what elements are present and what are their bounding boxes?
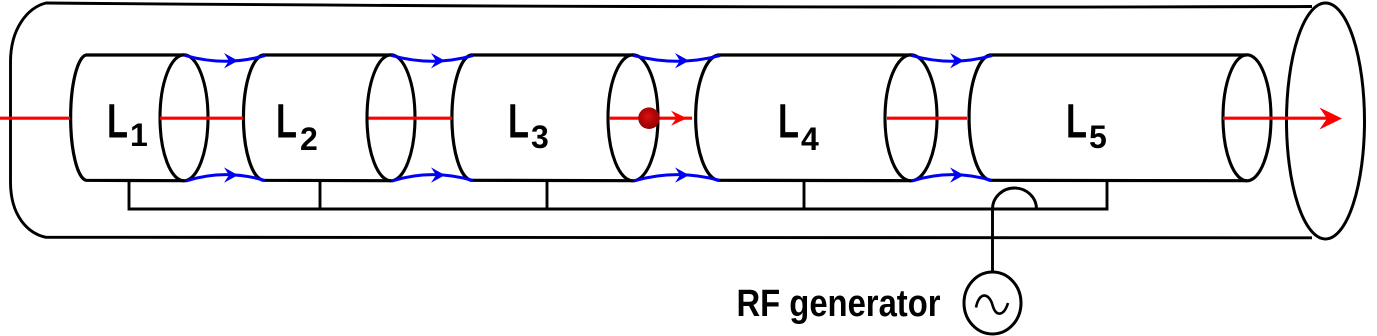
drift tube L2 body (243, 55, 391, 181)
E-field arrowhead top gap L1-L2 (224, 53, 238, 68)
svg-text:5: 5 (1089, 119, 1107, 155)
RF generator circle (964, 272, 1021, 334)
E-field arrowhead bottom gap L3-L4 (675, 167, 689, 182)
E-field arrow curve top gap L1-L2 (185, 55, 266, 61)
drift tube L2 right end ellipse (367, 55, 415, 181)
label L1 (107, 96, 148, 154)
svg-text:4: 4 (801, 121, 819, 157)
RF generator sine symbol (976, 296, 1008, 314)
beam axis red segment gap L4-L5 (887, 117, 967, 120)
E-field arrow curve bottom gap L1-L2 (186, 175, 265, 181)
svg-text:L: L (1066, 96, 1087, 149)
svg-text:L: L (107, 96, 128, 149)
outer vacuum tank body (11, 3, 1313, 238)
E-field arrow curve bottom gap L3-L4 (634, 175, 720, 181)
drift tube L3 right end ellipse (608, 55, 658, 181)
svg-text:L: L (508, 96, 529, 149)
beam axis red segment gap L1-L2 (160, 117, 243, 120)
bus stub wire to L4 (803, 180, 806, 209)
drift tube L5 right end ellipse (1223, 55, 1271, 181)
drift tube L5 body (969, 55, 1247, 181)
E-field arrowhead top gap L2-L3 (431, 53, 445, 68)
E-field arrowhead bottom gap L2-L3 (431, 167, 445, 182)
wire hop over bus (993, 188, 1037, 209)
red arrowhead on particle arrow (671, 111, 687, 126)
E-field arrow curve top gap L4-L5 (911, 55, 992, 61)
svg-text:3: 3 (531, 119, 549, 155)
E-field arrowhead bottom gap L4-L5 (950, 167, 964, 182)
label L5 (1066, 96, 1107, 156)
E-field arrow curve bottom gap L2-L3 (392, 175, 473, 181)
bus stub wire to L2 (319, 180, 322, 209)
drift tube L1 right end ellipse (160, 55, 208, 181)
label L2 (276, 96, 318, 158)
drift tube L1 body (71, 55, 184, 181)
RF generator lead wire (991, 209, 994, 273)
svg-text:L: L (276, 96, 297, 149)
red exit arrowhead (1320, 108, 1343, 130)
svg-text:1: 1 (130, 117, 148, 153)
E-field arrow curve top gap L2-L3 (391, 55, 473, 61)
beam axis red segment gap L3-L4 with particle (609, 117, 692, 120)
svg-text:2: 2 (300, 121, 318, 157)
label L4 (778, 96, 819, 158)
bus stub wire to L3 (546, 180, 549, 209)
RF feed bus wire (129, 180, 1107, 209)
E-field arrowhead top gap L3-L4 (675, 53, 689, 68)
svg-text:L: L (778, 96, 799, 149)
E-field arrow curve bottom gap L4-L5 (912, 175, 992, 181)
particle red dot (0, 0, 1, 1)
drift tube L3 body (452, 55, 633, 181)
beam axis red exit segment (1223, 117, 1335, 120)
E-field arrow curve top gap L3-L4 (633, 55, 720, 61)
drift tube L4 body (696, 55, 911, 181)
svg-text:RF generator: RF generator (737, 283, 941, 325)
drift tube L4 right end ellipse (885, 55, 937, 181)
E-field arrowhead bottom gap L1-L2 (224, 167, 238, 182)
outer vacuum tank right end ellipse (1287, 3, 1365, 239)
beam axis red segment entering tank (0, 117, 70, 120)
label L3 (508, 96, 549, 156)
beam axis red segment gap L2-L3 (369, 117, 453, 120)
E-field arrowhead top gap L4-L5 (950, 53, 964, 68)
